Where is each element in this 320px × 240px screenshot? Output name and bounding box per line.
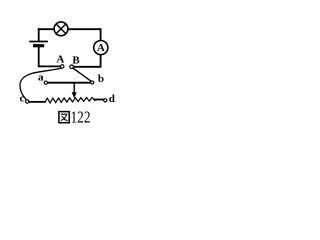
svg-text:b: b: [98, 73, 104, 85]
svg-text:c: c: [20, 93, 25, 105]
svg-text:A: A: [97, 42, 105, 54]
svg-text:a: a: [38, 71, 44, 83]
svg-text:A: A: [56, 53, 64, 65]
svg-text:122: 122: [71, 108, 91, 127]
svg-text:B: B: [72, 54, 80, 66]
svg-text:d: d: [109, 93, 115, 105]
